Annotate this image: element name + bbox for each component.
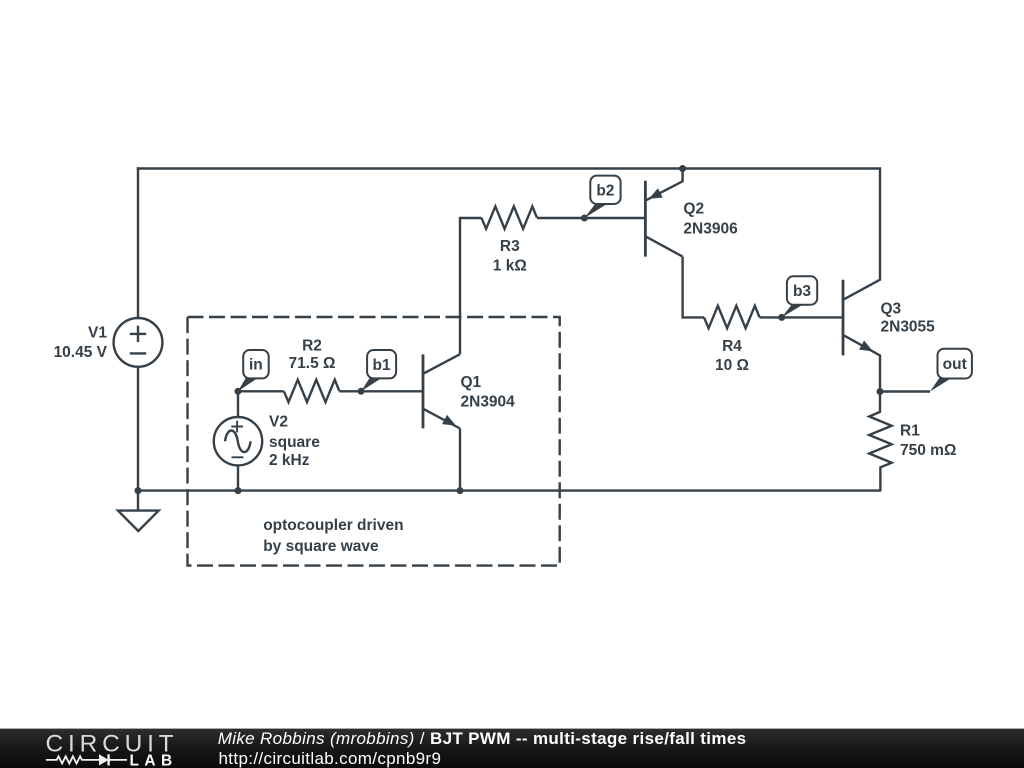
wire Q1 collector up to R3 [460,218,482,354]
voltage source V1 [114,318,163,367]
svg-text:2 kHz: 2 kHz [269,452,310,469]
svg-text:R3: R3 [500,238,520,255]
wire out stub [880,390,930,392]
svg-text:b2: b2 [596,182,614,199]
svg-text:http://circuitlab.com/cpnb9r9: http://circuitlab.com/cpnb9r9 [219,749,442,768]
svg-text:optocoupler driven: optocoupler driven [263,517,403,534]
transistor Q3 [843,169,880,392]
node b3 junction dot [778,314,785,321]
wire b1 to Q1 base [361,390,423,392]
wire R2 to b1 [339,390,361,392]
ground [118,491,159,531]
node b3 callout [782,276,818,317]
node Q2 emitter top dot [679,165,686,172]
wire V1 bottom to ground rail [137,367,139,491]
wire in to R2 [238,390,284,392]
wire Q2 collector down to R4 [683,257,704,318]
optocoupler dashed box [188,317,560,566]
svg-text:Mike Robbins (mrobbins) / BJT: Mike Robbins (mrobbins) / BJT PWM -- mul… [218,729,747,748]
transistor Q1 [423,354,460,428]
node out callout [930,349,972,392]
svg-text:Q2: Q2 [683,201,704,218]
svg-text:LAB: LAB [130,752,178,768]
wire R4 to b3 [759,316,781,318]
wire left rail from top to V1 [137,169,139,318]
svg-text:10.45 V: 10.45 V [54,344,108,361]
svg-text:2N3904: 2N3904 [461,393,516,410]
resistor R2 [284,380,339,402]
svg-text:R2: R2 [302,337,322,354]
svg-text:square: square [269,434,320,451]
node V2 ground dot [235,487,242,494]
svg-text:V1: V1 [88,325,107,342]
wire ground rail [138,489,880,491]
wire top rail [138,167,880,169]
node ground junction dot [135,487,142,494]
node out junction dot [877,388,884,395]
resistor R1 [869,392,891,491]
node b1 junction dot [358,388,365,395]
resistor R4 [704,306,759,328]
svg-text:R1: R1 [900,423,920,440]
svg-text:750 mΩ: 750 mΩ [900,442,956,459]
svg-text:10 Ω: 10 Ω [715,357,749,374]
svg-text:by square wave: by square wave [263,538,379,555]
resistor R3 [482,206,537,228]
svg-text:in: in [249,357,263,374]
wire Q1 emitter to ground rail [459,429,461,491]
svg-text:Q1: Q1 [461,374,482,391]
svg-text:2N3055: 2N3055 [881,319,936,336]
svg-text:2N3906: 2N3906 [683,220,738,237]
node b2 junction dot [581,215,588,222]
node b2 callout [584,176,620,218]
node Q1 emitter ground dot [457,487,464,494]
svg-text:1 kΩ: 1 kΩ [493,257,527,274]
svg-text:71.5 Ω: 71.5 Ω [289,355,336,372]
node b1 callout [361,350,396,391]
svg-text:V2: V2 [269,414,288,431]
svg-text:out: out [943,356,967,373]
svg-text:b1: b1 [373,357,391,374]
node in junction dot [235,388,242,395]
transistor Q2 [645,169,682,257]
logo resistor-diode squiggle [46,754,127,765]
svg-text:b3: b3 [793,283,811,300]
wire b2 to Q2 base [584,217,645,219]
wire R3 to b2 [537,217,585,219]
wire b3 to Q3 base [782,316,843,318]
svg-text:R4: R4 [722,338,742,355]
svg-text:Q3: Q3 [881,301,902,318]
voltage source V2 [214,391,262,490]
node in callout [238,350,269,391]
